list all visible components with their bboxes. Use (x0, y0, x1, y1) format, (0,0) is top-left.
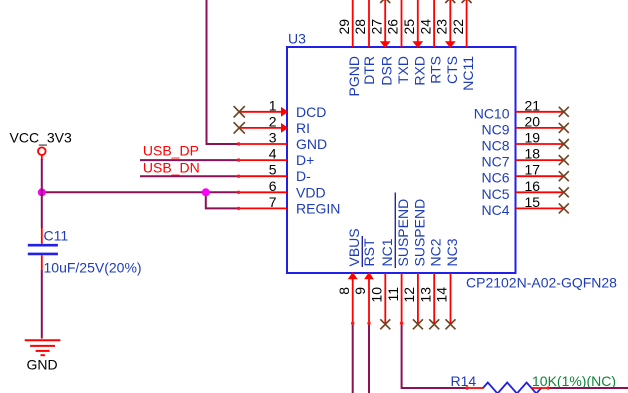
pin 6 VDD (238, 178, 326, 201)
svg-text:NC5: NC5 (481, 186, 509, 202)
svg-text:26: 26 (385, 19, 401, 35)
R14 reference label (451, 373, 477, 389)
svg-text:NC10: NC10 (474, 105, 510, 121)
svg-text:NC1: NC1 (379, 238, 395, 266)
svg-text:NC7: NC7 (481, 154, 509, 170)
svg-text:PGND: PGND (346, 56, 362, 96)
svg-text:GND: GND (27, 357, 58, 373)
wire capacitor to ground (41, 270, 43, 339)
ground net label GND (27, 357, 58, 373)
no-connect X pin 16 (559, 187, 569, 197)
svg-text:20: 20 (525, 113, 541, 129)
pin 1 DCD (238, 97, 326, 120)
svg-text:NC9: NC9 (481, 121, 509, 137)
svg-text:CP2102N-A02-GQFN28: CP2102N-A02-GQFN28 (466, 275, 617, 291)
pin 23 CTS (434, 0, 460, 84)
capacitor C11 (28, 228, 58, 270)
pin 8 VBUS (336, 228, 362, 323)
svg-text:C11: C11 (44, 228, 69, 244)
no-connect X pin 14 (446, 319, 456, 329)
svg-text:R14: R14 (451, 373, 477, 389)
svg-text:DCD: DCD (296, 104, 326, 120)
svg-text:18: 18 (525, 146, 541, 162)
svg-text:NC2: NC2 (428, 238, 444, 266)
svg-text:22: 22 (450, 19, 466, 35)
svg-text:NC6: NC6 (481, 170, 509, 186)
svg-text:25: 25 (401, 19, 417, 35)
svg-text:13: 13 (417, 287, 433, 303)
pin 17 NC6 (481, 162, 564, 186)
no-connect X pin 10 (380, 319, 390, 329)
svg-text:SUSPEND: SUSPEND (395, 199, 411, 267)
svg-text:SUSPEND: SUSPEND (411, 199, 427, 267)
svg-text:USB_DN: USB_DN (143, 160, 200, 176)
pin 10 NC1 (369, 238, 395, 323)
wire from R14 to right edge (549, 387, 628, 389)
no-connect X pin 1 (234, 106, 245, 117)
svg-text:RTS: RTS (428, 56, 444, 84)
svg-text:NC11: NC11 (460, 56, 476, 91)
pin 29 PGND (336, 0, 362, 96)
svg-text:VBUS: VBUS (346, 228, 362, 266)
pin 3 GND (238, 130, 327, 153)
no-connect X pin 22 top (462, 0, 472, 3)
svg-text:TXD: TXD (395, 56, 411, 84)
svg-text:U3: U3 (288, 31, 306, 47)
svg-text:8: 8 (336, 287, 352, 295)
R14 value label 10K(1%)(NC) (532, 373, 616, 389)
pin 26 TXD (385, 0, 411, 84)
wire VCC_3V3 vertical (41, 155, 43, 228)
wire from pin 8 down (352, 324, 354, 393)
ground symbol (25, 340, 61, 355)
svg-text:GND: GND (296, 136, 327, 152)
no-connect X pin 18 (559, 155, 569, 165)
no-connect X pin 20 (559, 123, 569, 133)
wire VCC_3V3 to pin 6 VDD (42, 191, 238, 193)
svg-text:4: 4 (269, 146, 277, 162)
svg-text:USB_DP: USB_DP (143, 143, 199, 159)
junction at REGIN branch (202, 188, 210, 196)
pin 19 NC8 (481, 130, 564, 154)
svg-text:NC4: NC4 (481, 202, 509, 218)
svg-text:27: 27 (368, 19, 384, 35)
pin 20 NC9 (481, 113, 564, 137)
svg-text:2: 2 (269, 113, 277, 129)
pin 18 NC7 (481, 146, 564, 170)
pin 9 RST (352, 236, 377, 324)
svg-text:19: 19 (525, 130, 541, 146)
pin 28 DTR (352, 0, 377, 85)
svg-text:RI: RI (296, 120, 310, 136)
pin 27 DSR (368, 0, 394, 86)
pin 22 NC11 (450, 0, 476, 91)
pin 13 NC2 (417, 238, 443, 323)
pin 11 SUSPEND (active low) (385, 193, 411, 324)
wire USB_DP to pin 4 (140, 159, 238, 161)
U3 part value CP2102N-A02-GQFN28 (466, 275, 617, 291)
wire branch to pin 7 REGIN (206, 192, 238, 208)
pin 14 NC3 (434, 238, 460, 323)
svg-text:REGIN: REGIN (296, 200, 340, 216)
no-connect X pin 12 (413, 319, 423, 329)
C11 value label (44, 260, 142, 276)
resistor R14 (466, 383, 548, 393)
no-connect X pin 13 (429, 319, 439, 329)
svg-text:3: 3 (269, 130, 277, 146)
svg-text:28: 28 (352, 19, 368, 35)
power symbol VCC_3V3 (10, 130, 72, 156)
pin 21 NC10 (474, 97, 564, 121)
no-connect X pin 15 (559, 203, 569, 213)
svg-text:16: 16 (525, 178, 541, 194)
svg-text:9: 9 (352, 287, 368, 295)
svg-text:10: 10 (369, 287, 385, 303)
no-connect X pin 19 (559, 139, 569, 149)
svg-text:23: 23 (434, 19, 450, 35)
wire USB_DN to pin 5 (140, 175, 238, 177)
svg-text:29: 29 (336, 19, 352, 35)
svg-text:17: 17 (525, 162, 541, 178)
svg-text:D+: D+ (296, 152, 314, 168)
svg-text:DSR: DSR (379, 56, 395, 86)
svg-text:10K(1%)(NC): 10K(1%)(NC) (532, 373, 616, 389)
svg-text:VDD: VDD (296, 184, 326, 200)
wire GND net vertical to pin 3 (207, 0, 239, 144)
svg-text:6: 6 (269, 178, 277, 194)
svg-text:NC8: NC8 (481, 138, 509, 154)
pin 12 SUSPEND (401, 199, 427, 324)
pin 5 D- (238, 162, 311, 185)
svg-text:24: 24 (417, 19, 433, 35)
pin 16 NC5 (481, 178, 564, 202)
no-connect X pin 17 (559, 171, 569, 181)
pin 7 REGIN (238, 194, 340, 217)
svg-text:D-: D- (296, 168, 311, 184)
svg-text:14: 14 (434, 287, 450, 303)
wire from pin 11 to resistor R14 (402, 324, 467, 389)
svg-text:CTS: CTS (444, 56, 460, 84)
pin end connection dots (237, 142, 550, 389)
pin 24 RTS (417, 0, 443, 84)
svg-text:21: 21 (525, 97, 541, 113)
IC U3 body outline (287, 47, 516, 273)
pin 15 NC4 (481, 194, 564, 218)
no-connect X pin 2 (234, 122, 245, 133)
svg-text:7: 7 (269, 194, 277, 210)
net label USB_DP (143, 143, 199, 159)
svg-text:VCC_3V3: VCC_3V3 (10, 130, 72, 146)
pin 4 D+ (238, 146, 314, 169)
svg-text:10uF/25V(20%): 10uF/25V(20%) (44, 260, 142, 276)
svg-text:RXD: RXD (411, 56, 427, 86)
svg-text:5: 5 (269, 162, 277, 178)
no-connect X pin 23 top (445, 0, 455, 3)
svg-text:15: 15 (525, 194, 541, 210)
pin 25 RXD (401, 0, 427, 86)
pin 2 RI (238, 113, 310, 135)
U3 reference designator label (288, 31, 306, 47)
svg-text:NC3: NC3 (444, 238, 460, 266)
svg-text:DTR: DTR (361, 56, 377, 85)
junction at VCC vertical (38, 188, 46, 196)
svg-text:11: 11 (385, 287, 401, 302)
no-connect X pin 27 top (380, 0, 390, 3)
C11 reference label (44, 228, 69, 244)
no-connect X pin 21 (559, 107, 569, 117)
net label USB_DN (143, 160, 200, 176)
svg-text:12: 12 (401, 287, 417, 303)
svg-text:1: 1 (269, 97, 277, 113)
svg-text:RST: RST (361, 238, 377, 266)
wire from pin 9 down (368, 324, 370, 393)
